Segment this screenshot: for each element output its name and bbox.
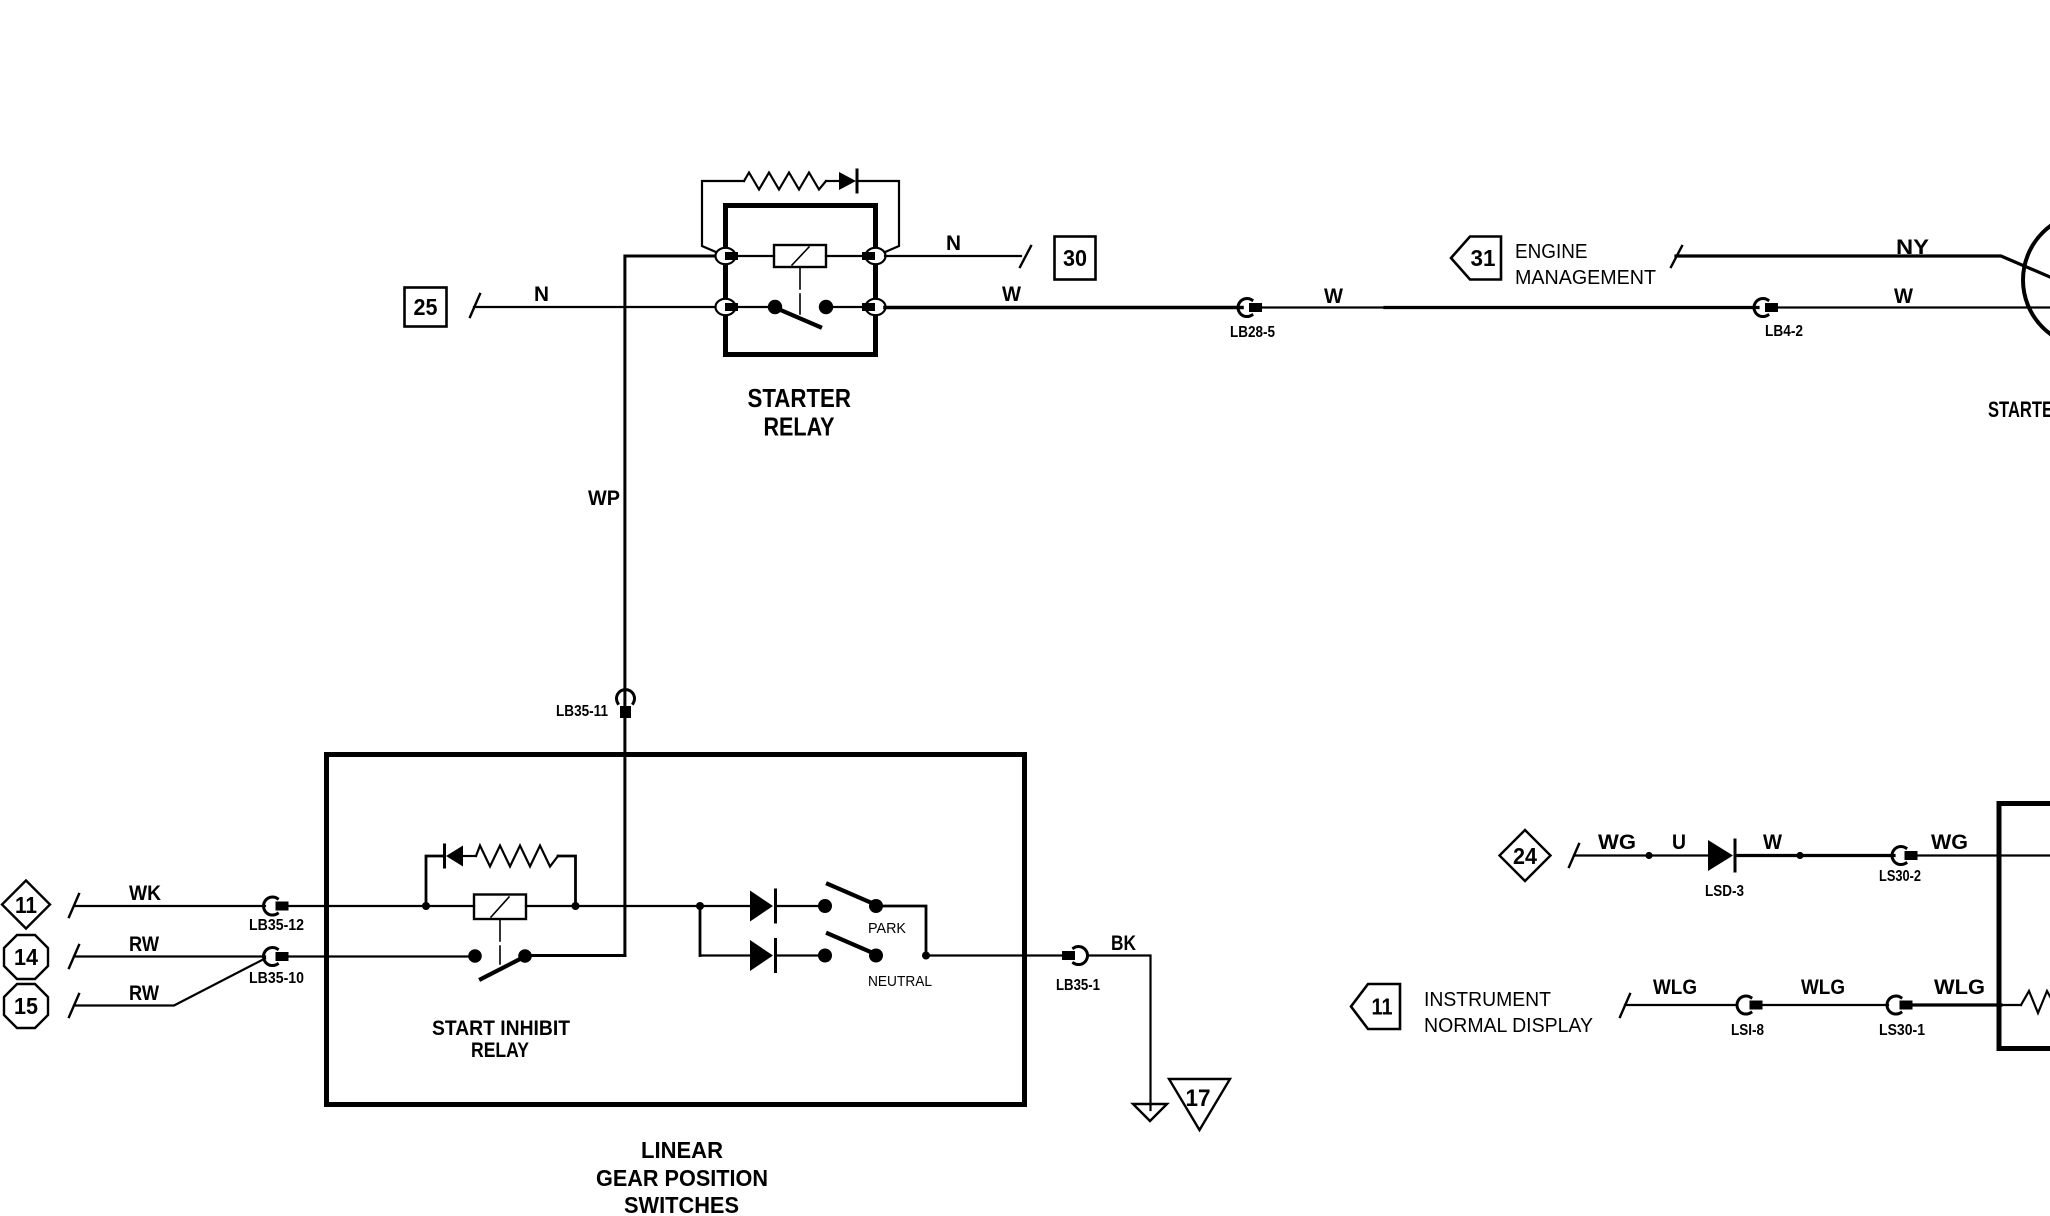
svg-text:NORMAL DISPLAY: NORMAL DISPLAY xyxy=(1424,1015,1593,1037)
svg-text:N: N xyxy=(946,232,961,255)
ground arrow xyxy=(1133,1104,1167,1121)
PARK switch blade xyxy=(828,884,874,904)
wire N from relay to 30 xyxy=(885,255,1021,257)
wire resistor to diode xyxy=(826,180,839,182)
svg-text:17: 17 xyxy=(1186,1085,1211,1112)
wire junction down to NEUTRAL row xyxy=(699,906,702,956)
svg-text:STARTER: STARTER xyxy=(1988,397,2050,422)
linear gear position switches box xyxy=(327,755,1025,1105)
wire junction to LB35-1 xyxy=(926,954,1061,956)
relay pin bottom-left xyxy=(716,299,739,315)
svg-text:START INHIBIT: START INHIBIT xyxy=(432,1017,570,1040)
svg-text:LB35-1: LB35-1 xyxy=(1056,977,1100,994)
wire LB35-12 into box to coil xyxy=(288,905,474,907)
connector LB4-2 xyxy=(1754,299,1778,317)
wire switch to WP xyxy=(525,954,625,957)
label ENGINE MANAGEMENT xyxy=(1515,241,1656,289)
wire N from 25 to starter relay switch pin xyxy=(474,306,722,308)
svg-text:25: 25 xyxy=(414,294,438,320)
svg-text:STARTER: STARTER xyxy=(748,383,852,413)
wire RW from 14 to LB35-10 xyxy=(74,955,265,957)
suppression branch right riser xyxy=(558,856,576,906)
ground reference 17 (triangle) xyxy=(1169,1079,1230,1130)
svg-text:LB28-5: LB28-5 xyxy=(1230,324,1275,341)
node 24 (diamond) xyxy=(1500,830,1551,881)
resistor (start inhibit suppression) xyxy=(476,846,558,867)
connector LB28-5 xyxy=(1238,299,1262,317)
wire NY to starter motor xyxy=(1676,256,2050,277)
svg-text:WG: WG xyxy=(1598,831,1636,854)
wire break slash (NY) xyxy=(1671,246,1682,267)
svg-text:SWITCHES: SWITCHES xyxy=(624,1192,739,1216)
svg-text:LSI-8: LSI-8 xyxy=(1731,1022,1764,1039)
relay pin bottom-right xyxy=(862,299,886,315)
wire W from LB28-5 to LB4-2 xyxy=(1262,306,1385,308)
wire PARK diode to switch xyxy=(777,905,820,907)
starter motor (circle, clipped at right edge) xyxy=(2023,213,2050,347)
svg-text:LB35-11: LB35-11 xyxy=(556,703,608,720)
svg-text:WP: WP xyxy=(588,487,620,510)
svg-text:WK: WK xyxy=(129,882,161,905)
wire WK from 11 to LB35-12 xyxy=(74,905,265,907)
svg-text:15: 15 xyxy=(14,993,38,1019)
wire NEUTRAL diode to switch xyxy=(777,954,820,956)
svg-text:ENGINE: ENGINE xyxy=(1515,241,1588,263)
resistor (instrument, clipped) xyxy=(2021,991,2050,1013)
svg-text:11: 11 xyxy=(15,892,37,918)
node (switch output junction) xyxy=(922,952,930,960)
svg-text:W: W xyxy=(1894,285,1913,308)
relay actuator dashed line xyxy=(799,267,801,314)
node 15 (octagon) xyxy=(4,984,48,1028)
node (coil left junction) xyxy=(422,902,430,910)
svg-text:WG: WG xyxy=(1931,831,1968,854)
wire break slash (11) xyxy=(69,894,79,917)
node 25 (page reference box) xyxy=(405,288,447,327)
wire to PARK diode xyxy=(700,905,750,907)
svg-text:30: 30 xyxy=(1063,245,1087,271)
wire W from relay to LB28-5 xyxy=(885,306,1242,310)
start inhibit switch contacts xyxy=(468,949,482,963)
svg-text:GEAR POSITION: GEAR POSITION xyxy=(596,1165,768,1191)
node 30 (page reference box) xyxy=(1055,237,1096,280)
svg-text:W: W xyxy=(1763,831,1782,854)
wire WP continues into gear switch box xyxy=(623,718,626,956)
svg-text:LS30-1: LS30-1 xyxy=(1879,1022,1925,1039)
wire W from LSD-3 to LS30-2 xyxy=(1736,854,1894,857)
connector LS30-2 xyxy=(1892,847,1917,865)
svg-text:NEUTRAL: NEUTRAL xyxy=(868,973,932,990)
relay pin top-left xyxy=(716,248,739,264)
svg-text:RELAY: RELAY xyxy=(764,412,835,442)
connector LB35-12 xyxy=(264,897,289,915)
instrument box (clipped at right edge) xyxy=(1999,804,2050,1049)
svg-text:PARK: PARK xyxy=(868,920,906,937)
diode LSD-3 xyxy=(1708,840,1735,871)
node 31 (page reference pentagon) xyxy=(1451,237,1501,280)
starter relay box xyxy=(726,206,876,355)
svg-text:N: N xyxy=(534,283,549,306)
wire break slash (15) xyxy=(69,994,79,1017)
node (coil right junction) xyxy=(572,902,580,910)
svg-text:WLG: WLG xyxy=(1653,976,1697,999)
PARK switch contacts xyxy=(818,899,832,913)
svg-text:WLG: WLG xyxy=(1801,976,1845,999)
start inhibit actuator dashed line xyxy=(499,919,501,964)
connector LB35-10 xyxy=(264,948,289,966)
node (W/WG splice) xyxy=(1796,852,1803,859)
resistor (starter relay suppression) xyxy=(744,173,826,190)
wire WLG LSI-8 to LS30-1 xyxy=(1763,1004,1888,1006)
start inhibit relay coil xyxy=(474,895,526,920)
wire break slash (25) xyxy=(470,294,480,317)
diode (NEUTRAL) xyxy=(750,940,776,972)
wire WLG into instrument box xyxy=(1913,1003,2001,1006)
svg-text:INSTRUMENT: INSTRUMENT xyxy=(1424,989,1551,1011)
svg-text:24: 24 xyxy=(1513,843,1537,869)
wire break slash (30) xyxy=(1020,246,1031,267)
svg-text:LSD-3: LSD-3 xyxy=(1705,883,1744,900)
svg-text:LB35-10: LB35-10 xyxy=(249,970,304,987)
wire diode to resistor xyxy=(463,855,476,857)
node 11 (page reference pentagon, instrument) xyxy=(1351,984,1400,1029)
wire to NEUTRAL diode xyxy=(700,954,750,956)
svg-text:LB4-2: LB4-2 xyxy=(1765,323,1803,340)
connector LS30-1 xyxy=(1887,996,1912,1014)
svg-text:RW: RW xyxy=(129,933,159,956)
node 11 (diamond) xyxy=(2,881,50,929)
wire coil line to PARK junction xyxy=(526,905,700,907)
label START INHIBIT RELAY xyxy=(432,1017,570,1062)
svg-text:U: U xyxy=(1672,831,1686,854)
svg-text:LB35-12: LB35-12 xyxy=(249,917,304,934)
connector LB35-11 xyxy=(617,690,635,718)
wire LB35-10 into box to switch xyxy=(288,955,475,957)
wire RW from 15 joining LB35-10 xyxy=(74,959,265,1006)
wire WLG to LSI-8 xyxy=(1625,1004,1736,1006)
wire break slash (14) xyxy=(69,945,79,968)
label INSTRUMENT NORMAL DISPLAY xyxy=(1424,989,1593,1037)
svg-text:11: 11 xyxy=(1372,994,1393,1020)
wire PARK switch down to NEUTRAL row xyxy=(876,906,926,956)
node (diode pair junction) xyxy=(696,902,704,910)
connector LSI-8 xyxy=(1737,996,1762,1014)
starter relay coil xyxy=(774,245,826,267)
wire WG/U from 24 to LSD-3 xyxy=(1574,854,1708,856)
wire coil to pins xyxy=(738,255,774,257)
svg-text:BK: BK xyxy=(1111,932,1136,955)
svg-text:W: W xyxy=(1324,285,1343,308)
svg-text:RELAY: RELAY xyxy=(471,1039,529,1062)
label LINEAR GEAR POSITION SWITCHES xyxy=(596,1137,768,1216)
wire stub to resistor xyxy=(2001,1004,2021,1006)
suppression branch left riser (start inhibit) xyxy=(426,856,443,906)
NEUTRAL switch blade xyxy=(828,934,874,954)
wire break slash (WLG) xyxy=(1620,994,1630,1017)
diode (starter relay suppression) xyxy=(839,170,857,192)
wire W from LB4-2 to starter motor xyxy=(1778,306,2050,308)
svg-text:NY: NY xyxy=(1896,236,1929,259)
svg-text:MANAGEMENT: MANAGEMENT xyxy=(1515,267,1656,289)
NEUTRAL switch contacts xyxy=(818,949,832,963)
svg-text:31: 31 xyxy=(1471,245,1496,271)
svg-text:LS30-2: LS30-2 xyxy=(1879,868,1921,885)
wire WG into instrument box xyxy=(1918,854,2050,856)
relay pin top-right xyxy=(862,248,886,264)
starter relay switch contacts xyxy=(768,300,782,314)
suppression branch: left diagonal+riser xyxy=(702,181,744,253)
node (WG/U splice) xyxy=(1645,852,1652,859)
wire WP vertical from relay coil down to LB35-11 xyxy=(625,256,716,706)
starter relay switch blade xyxy=(776,308,820,327)
wire break slash (24) xyxy=(1569,844,1579,867)
node 14 (octagon) xyxy=(4,935,48,979)
start inhibit switch blade xyxy=(481,957,524,979)
diode (start inhibit suppression, pointing left) xyxy=(445,845,464,867)
diode (PARK) xyxy=(750,890,776,922)
wire switch row to pins xyxy=(738,306,775,308)
label STARTER RELAY xyxy=(748,383,852,442)
wire BK to ground xyxy=(1089,956,1151,1111)
svg-text:LINEAR: LINEAR xyxy=(641,1137,723,1163)
connector LB35-1 (mirrored) xyxy=(1062,947,1087,965)
svg-text:WLG: WLG xyxy=(1934,976,1985,999)
svg-text:RW: RW xyxy=(129,982,159,1005)
svg-text:14: 14 xyxy=(14,944,38,970)
wire diode to right riser xyxy=(857,181,899,253)
svg-text:W: W xyxy=(1002,283,1021,306)
